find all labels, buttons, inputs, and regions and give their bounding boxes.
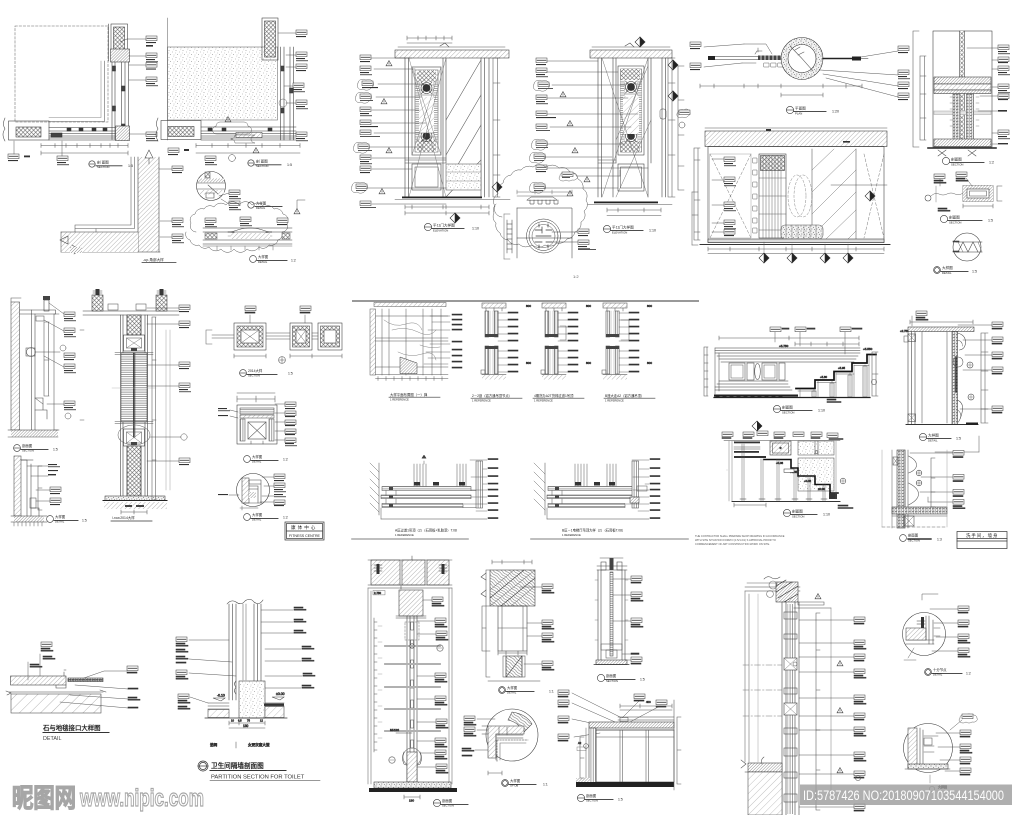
dims below xyxy=(234,354,342,358)
moon gate callouts xyxy=(690,42,910,100)
vertical dims xyxy=(44,322,49,396)
bottom stone A (stipple) xyxy=(446,164,481,190)
lintel band A xyxy=(395,50,509,58)
column section title xyxy=(112,515,135,520)
D2 title xyxy=(562,528,625,538)
right vertical band xyxy=(476,461,483,508)
inner finish lines C xyxy=(75,157,135,232)
floor xyxy=(374,782,451,788)
central lattice strip bottom xyxy=(127,446,141,496)
elevation A title xyxy=(424,223,464,230)
left dims xyxy=(920,56,926,140)
svg-text:剖面图: 剖面图 xyxy=(606,673,617,678)
dash-dot floor levels left xyxy=(743,665,782,716)
left wall xyxy=(589,728,596,784)
cabinet section title xyxy=(577,794,613,801)
svg-text:1:2: 1:2 xyxy=(283,516,288,520)
svg-text:+0.08: +0.08 xyxy=(776,461,784,465)
sketch title xyxy=(390,392,428,402)
floor xyxy=(908,764,948,769)
door frame detail A (mid-right) xyxy=(900,311,1003,452)
nipic watermark (bottom left) xyxy=(12,783,204,813)
inner panel rect xyxy=(517,208,572,258)
dimension rows A xyxy=(41,144,128,148)
revision clouds on sill B xyxy=(212,122,251,134)
right dim + circle xyxy=(835,441,837,499)
svg-text:石与地毯接口大样图: 石与地毯接口大样图 xyxy=(42,723,101,732)
section mark 1 title xyxy=(89,161,122,167)
svg-text:剖面图: 剖面图 xyxy=(442,798,453,803)
right dims B xyxy=(668,58,675,197)
rosette top B xyxy=(626,81,637,93)
top callouts xyxy=(722,431,838,438)
svg-text:B座大走A2（铝方通吊顶）: B座大走A2（铝方通吊顶） xyxy=(605,393,644,398)
svg-text:DETAIL: DETAIL xyxy=(928,438,938,442)
elevation A callouts xyxy=(351,55,446,208)
svg-text:OF DB: OF DB xyxy=(510,784,518,788)
svg-text:1:5: 1:5 xyxy=(988,219,993,223)
central lattice strip top xyxy=(127,315,141,335)
small boxes under wall xyxy=(764,63,783,67)
hatched wall xyxy=(11,302,20,430)
svg-text:+2.750: +2.750 xyxy=(900,329,909,333)
svg-text:800: 800 xyxy=(647,304,652,308)
svg-text:ID:5787426 NO:2018090710354415: ID:5787426 NO:20180907103544154000 xyxy=(803,788,1004,803)
hatched blocks above ceiling xyxy=(92,295,103,311)
mid band xyxy=(934,111,991,115)
svg-text:平11门大样图: 平11门大样图 xyxy=(612,224,634,229)
leader line right xyxy=(831,184,887,186)
svg-text:剖面图: 剖面图 xyxy=(782,404,793,409)
anchor bolts xyxy=(377,564,380,574)
right side labels xyxy=(452,314,462,368)
curtain setting-out sketch xyxy=(370,303,462,381)
elevation B title xyxy=(603,225,643,232)
cloud label above xyxy=(559,172,577,181)
steps xyxy=(796,355,876,389)
ceiling detail D2 xyxy=(534,459,660,520)
svg-text:大样图: 大样图 xyxy=(258,254,269,259)
leaders to top labels xyxy=(28,654,40,680)
svg-text:6.5: 6.5 xyxy=(238,719,242,723)
svg-text:COMMENCEMENT OF ART CONSTRU: COMMENCEMENT OF ART CONSTRUCTION WORK ON… xyxy=(695,542,770,546)
glass diagonal panel xyxy=(812,149,856,239)
left frame xyxy=(908,332,915,425)
side ladder xyxy=(507,220,512,253)
wall corner section IV (bottom right of middle) xyxy=(882,450,965,528)
tall partition title xyxy=(433,799,468,806)
detail V title xyxy=(244,456,278,463)
svg-text:MH132: MH132 xyxy=(390,728,399,732)
svg-text:大样图: 大样图 xyxy=(928,432,939,437)
detail VI (circle corner) xyxy=(237,474,270,511)
glass outline A xyxy=(15,26,108,122)
sill bar xyxy=(203,228,292,244)
stair balustrade section xyxy=(704,327,878,403)
door frame title xyxy=(919,433,951,440)
left dim scale xyxy=(704,347,708,396)
top dims xyxy=(620,704,672,710)
base xyxy=(14,516,44,522)
concrete curb xyxy=(239,681,265,718)
elevation outline xyxy=(708,147,884,243)
lintel band B xyxy=(590,50,672,58)
stone band xyxy=(11,676,67,685)
svg-text:www.nipic.com: www.nipic.com xyxy=(79,785,204,812)
plan title xyxy=(786,106,826,113)
svg-text:1:5: 1:5 xyxy=(53,448,58,452)
top thin lines right xyxy=(618,717,674,720)
leaders to labels xyxy=(552,232,578,242)
base xyxy=(488,680,540,682)
corner window section B xyxy=(156,18,300,153)
lattice bars xyxy=(415,70,438,152)
top dim xyxy=(517,190,572,196)
leaf diagonals B xyxy=(602,58,651,197)
svg-text:-0.10: -0.10 xyxy=(217,694,225,698)
svg-text:DETAIL: DETAIL xyxy=(252,460,262,464)
svg-text:1:1: 1:1 xyxy=(549,690,554,694)
centre divider rule xyxy=(353,300,698,302)
sill section A (hatched box left) xyxy=(9,121,50,140)
planter stipple xyxy=(781,225,823,239)
svg-text:剖 面图: 剖 面图 xyxy=(256,158,268,163)
corner block A xyxy=(116,126,130,141)
jamb II title xyxy=(499,687,534,694)
bottom left slab xyxy=(748,763,782,772)
svg-text:卫生间隔墙剖面图: 卫生间隔墙剖面图 xyxy=(211,761,264,770)
door frame B xyxy=(598,58,666,197)
balustrade title xyxy=(773,405,812,412)
hatched L corner xyxy=(488,726,524,758)
small cloud right of B xyxy=(861,0,863,1)
medallion callouts xyxy=(559,170,620,279)
dim col right of elevation B xyxy=(692,192,698,245)
finish lines xyxy=(20,310,36,430)
wall line left xyxy=(713,57,760,60)
svg-text:1:10: 1:10 xyxy=(823,513,830,517)
svg-text:大样图: 大样图 xyxy=(510,778,521,783)
section I callouts xyxy=(967,45,1010,144)
leader w circle xyxy=(925,195,931,201)
base line xyxy=(9,691,103,693)
svg-text:B区－1电梯厅吊顶大样（2）（石膏板T.08）: B区－1电梯厅吊顶大样（2）（石膏板T.08） xyxy=(562,528,625,533)
top line xyxy=(724,440,840,442)
louvred middle band xyxy=(121,353,147,422)
left dims xyxy=(727,441,766,507)
panels row xyxy=(729,363,745,380)
door leaf xyxy=(498,606,527,651)
leader fan top xyxy=(572,693,620,737)
jamb mouldings right xyxy=(958,333,966,350)
base line xyxy=(732,501,840,503)
wall hatch left xyxy=(370,463,379,512)
cabinet ceiling section A (bottom centre-right) xyxy=(558,690,681,790)
left frame box xyxy=(234,323,266,350)
svg-text:+0.02: +0.02 xyxy=(804,479,812,483)
corner content xyxy=(906,640,934,644)
bottom long leader xyxy=(381,518,487,520)
corner window section A xyxy=(3,24,130,155)
right second dim col B xyxy=(678,66,684,190)
upper hatch bands xyxy=(934,77,991,84)
section B callouts xyxy=(168,30,308,165)
bottom dim xyxy=(404,795,420,799)
dims below B xyxy=(607,208,661,216)
connecting mullion lines xyxy=(266,333,318,339)
medallion circles xyxy=(527,219,561,253)
lower skirting xyxy=(35,398,47,419)
detail V (wall cap plan) xyxy=(237,393,277,444)
bottom band xyxy=(708,239,884,243)
svg-text:1:5: 1:5 xyxy=(82,519,87,523)
right dim xyxy=(872,352,878,396)
svg-text:DETAIL: DETAIL xyxy=(252,518,262,522)
lattice screen xyxy=(759,154,786,238)
floor line B xyxy=(594,202,658,204)
svg-text:大样图: 大样图 xyxy=(55,514,66,519)
wall line right xyxy=(823,58,852,60)
stipple blocks right xyxy=(798,441,834,455)
bottom frame A horizontal xyxy=(49,128,116,141)
svg-text:剖面图: 剖面图 xyxy=(586,793,597,798)
fitness elevation (top right) xyxy=(694,128,890,263)
corner step C xyxy=(72,245,80,254)
labels right xyxy=(960,730,972,775)
svg-text:DETAIL: DETAIL xyxy=(43,736,61,742)
scalloped cloud boundary xyxy=(493,165,587,248)
svg-text:1:5: 1:5 xyxy=(972,270,977,274)
left face lines xyxy=(745,591,749,762)
detail F title xyxy=(47,516,78,523)
lower mullions xyxy=(485,346,489,374)
column section callouts xyxy=(80,305,191,465)
curtain wall section (bottom right) xyxy=(741,577,866,815)
bottom dim xyxy=(488,771,502,775)
svg-text:SECTION: SECTION xyxy=(22,449,34,453)
leaders to labels xyxy=(910,453,953,502)
svg-text:1:20: 1:20 xyxy=(832,110,839,114)
detail V title xyxy=(250,256,287,263)
lower wood block xyxy=(506,656,522,677)
svg-text:A区过道1吊顶（2）（石膏板+乳胶漆）T.08: A区过道1吊顶（2）（石膏板+乳胶漆）T.08 xyxy=(395,528,457,533)
labels left xyxy=(462,716,476,756)
svg-text:大样平面布置图（一）弹: 大样平面布置图（一）弹 xyxy=(390,392,428,397)
svg-text:1 REFERENCE: 1 REFERENCE xyxy=(605,398,624,402)
floor detail title xyxy=(42,723,101,732)
plan detail IV (mullion plan) xyxy=(206,306,342,363)
wall section E (mid-left) xyxy=(8,296,59,437)
svg-text:ELEVATION: ELEVATION xyxy=(433,228,448,232)
bottom dims xyxy=(708,247,884,254)
section E title xyxy=(14,445,48,452)
svg-text:800: 800 xyxy=(586,361,591,365)
wall textured strip xyxy=(897,450,905,528)
mullion detail M3 xyxy=(602,303,652,380)
svg-text:ELEVATION: ELEVATION xyxy=(612,230,627,234)
bottom panel A xyxy=(412,164,441,190)
cloud medallion detail xyxy=(493,165,587,259)
svg-text:1 REFERENCE: 1 REFERENCE xyxy=(562,533,581,537)
base line xyxy=(205,717,287,719)
detail II title xyxy=(940,215,982,222)
outer casing verticals xyxy=(121,315,148,500)
hatch centre of panel A xyxy=(419,97,434,133)
stair detail title xyxy=(783,509,817,516)
svg-text:1 REFERENCE: 1 REFERENCE xyxy=(472,398,491,402)
detail V callouts xyxy=(205,200,305,227)
svg-text:400: 400 xyxy=(646,700,651,704)
bottom xyxy=(906,424,978,426)
section E callouts xyxy=(36,303,76,419)
svg-text:1:2: 1:2 xyxy=(966,672,971,676)
wall studs xyxy=(229,604,236,700)
svg-text:+5.550: +5.550 xyxy=(863,347,873,351)
svg-text:1:5: 1:5 xyxy=(287,163,292,167)
bottom dims xyxy=(229,721,265,728)
gate ring xyxy=(781,38,823,80)
base floor hatch xyxy=(11,430,58,437)
svg-text:1:10: 1:10 xyxy=(818,409,825,413)
left dims xyxy=(486,570,490,677)
side ticks xyxy=(595,580,628,640)
header xyxy=(597,566,627,570)
bottom floor xyxy=(576,782,674,787)
svg-text:1:5: 1:5 xyxy=(956,437,961,441)
svg-text:1 REFERENCE: 1 REFERENCE xyxy=(390,398,409,402)
svg-text:130: 130 xyxy=(409,799,414,803)
top jamb block xyxy=(124,335,145,351)
floor left layers xyxy=(208,703,229,709)
leaders right xyxy=(464,460,487,511)
ceiling hatch band xyxy=(589,722,674,728)
detail VI title xyxy=(244,514,278,521)
dashed edge xyxy=(497,740,528,762)
bottom hatch xyxy=(934,139,991,147)
mullion detail M1 xyxy=(481,303,531,380)
bottom dims mid xyxy=(498,651,527,655)
ceiling line xyxy=(83,311,179,315)
inner verticals xyxy=(922,332,947,423)
centre stud xyxy=(960,31,965,147)
svg-text:洗手间，墙身: 洗手间，墙身 xyxy=(966,532,998,539)
svg-text:剖面图: 剖面图 xyxy=(22,443,33,448)
detail III (truss circle) xyxy=(953,233,982,261)
left labels xyxy=(176,637,187,642)
door elevation B xyxy=(588,37,684,216)
svg-text:剖面图: 剖面图 xyxy=(908,533,919,538)
detail N title xyxy=(248,202,282,208)
svg-text:浴间: 浴间 xyxy=(210,742,218,747)
bottom dim ticks xyxy=(376,377,449,381)
outer walls xyxy=(598,570,625,660)
rosette top A xyxy=(421,82,432,94)
svg-text:DETAIL: DETAIL xyxy=(507,691,517,695)
svg-text:+5.750: +5.750 xyxy=(779,344,789,348)
studs inside xyxy=(411,622,414,630)
access panel xyxy=(770,441,791,455)
detail VI callouts xyxy=(218,474,286,506)
detail V callouts xyxy=(218,402,297,446)
cloud top right xyxy=(959,714,977,723)
svg-text:1:5: 1:5 xyxy=(128,164,133,168)
corner detail C (L wall) xyxy=(60,150,160,254)
svg-text:1:10: 1:10 xyxy=(472,227,479,231)
svg-text:DETAIL: DETAIL xyxy=(933,673,943,677)
svg-text:SECTION: SECTION xyxy=(248,374,260,378)
svg-text:大样图: 大样图 xyxy=(252,454,263,459)
svg-text:±0.00: ±0.00 xyxy=(276,692,285,696)
left small dims xyxy=(580,737,584,778)
svg-text:康体中心: 康体中心 xyxy=(291,524,317,531)
leaders+tiny text right xyxy=(508,312,518,372)
mid fixing detail xyxy=(410,644,414,648)
leaders xyxy=(704,44,772,67)
inner glass offset lines xyxy=(49,61,105,122)
svg-text:1 REFERENCE: 1 REFERENCE xyxy=(534,398,553,402)
base xyxy=(482,374,506,376)
svg-text:1:10: 1:10 xyxy=(649,229,656,233)
bottom panel B xyxy=(618,164,644,191)
svg-text:WITH SITE SITUATION FORM N: WITH SITE SITUATION FORM N (1:5/1:2/1) S… xyxy=(695,538,776,542)
svg-text:DETAIL: DETAIL xyxy=(258,260,268,264)
svg-text:800: 800 xyxy=(586,304,591,308)
bracket row xyxy=(527,197,558,204)
right labels xyxy=(432,597,448,773)
svg-text:1:2: 1:2 xyxy=(989,161,994,165)
left panel dashed X xyxy=(710,154,751,238)
section A callouts xyxy=(8,36,158,165)
svg-text:SECTION: SECTION xyxy=(97,165,109,169)
bottom right label xyxy=(838,505,848,506)
dark triangle xyxy=(400,357,417,374)
svg-text:SECTION: SECTION xyxy=(782,410,794,414)
wall band xyxy=(908,728,917,768)
labels right xyxy=(542,584,554,670)
base xyxy=(105,496,165,501)
left leader xyxy=(206,330,212,344)
hangers xyxy=(414,461,466,486)
right frame box xyxy=(290,323,312,350)
svg-text:800: 800 xyxy=(647,361,652,365)
hinge blocks col xyxy=(753,158,757,233)
svg-text:SECTION: SECTION xyxy=(908,539,920,543)
svg-text:±0.00: ±0.00 xyxy=(818,487,825,491)
labels right xyxy=(992,322,1003,413)
section I title xyxy=(942,157,984,164)
detail C title xyxy=(143,257,164,262)
labels above xyxy=(245,306,256,311)
break squiggle top xyxy=(227,599,263,604)
right leaders xyxy=(60,685,128,708)
rosette bottom B xyxy=(626,130,637,142)
section mark 2 title xyxy=(248,160,281,166)
jamb frame A vertical xyxy=(111,49,130,62)
svg-text:剖面图: 剖面图 xyxy=(949,214,960,219)
detail II (frame section) xyxy=(925,172,1002,211)
lattice panel A xyxy=(412,67,441,155)
svg-text:FITNESS CENTRE: FITNESS CENTRE xyxy=(289,534,321,538)
top rail mouldings xyxy=(715,348,860,362)
section V title xyxy=(597,674,635,681)
bottom frame B xyxy=(201,127,296,140)
svg-text:1:1: 1:1 xyxy=(543,783,548,787)
vertical dim scale left xyxy=(374,618,377,752)
gray cross bands xyxy=(385,646,440,731)
svg-text:2.750: 2.750 xyxy=(374,591,381,595)
svg-text:剖面图: 剖面图 xyxy=(951,156,962,161)
svg-text:1:2: 1:2 xyxy=(291,259,296,263)
